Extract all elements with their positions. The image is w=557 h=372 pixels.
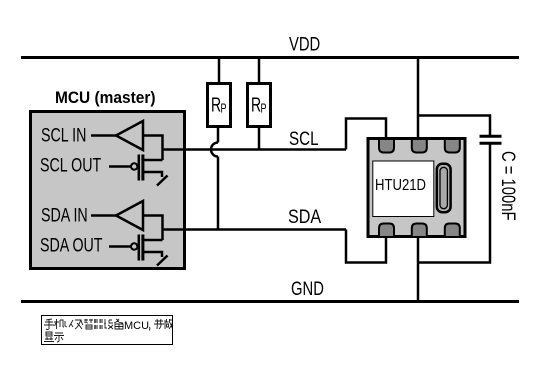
note text line 1: 手机以及智能设备MCU, 并做 (44, 319, 123, 330)
glyph 显 (44, 332, 54, 342)
glyph 机 (54, 319, 64, 329)
U2 pin 1 pad (379, 139, 394, 153)
wire buffer output to node bus SDA (143, 216, 163, 241)
transistor Q1 channel bar (141, 155, 144, 181)
wire hop to SDA node (217, 157, 220, 230)
MCU (master) block U1 (31, 112, 185, 269)
wire sensor pin 5 to GND (417, 232, 420, 302)
wire R1 down to hop (217, 127, 220, 143)
svg-text:R: R (251, 93, 261, 116)
svg-text:P: P (261, 102, 267, 116)
glyph 并 (154, 319, 164, 329)
Q1 source arrow (157, 176, 168, 186)
U2 label window (373, 161, 434, 217)
note text line 2: 显示 (44, 332, 64, 342)
glyph 及 (75, 320, 83, 329)
glyph 做 (165, 319, 173, 329)
svg-text:SDA IN: SDA IN (41, 205, 88, 226)
transistor Q1 gate bar (138, 155, 141, 181)
U2 sensor window outer (437, 164, 451, 212)
glyph 设 (104, 319, 113, 329)
wire buffer output to node bus (143, 136, 163, 161)
wire SDA IN to buffer (91, 214, 117, 217)
U2 pin 5 pad (412, 224, 427, 238)
wire SCL IN to buffer (91, 134, 117, 137)
U2 pin 4 pad (379, 224, 394, 238)
svg-text:MCU (master): MCU (master) (55, 88, 156, 107)
transistor Q2 channel bar (141, 235, 144, 261)
capacitor C1 top plate (480, 135, 502, 138)
capacitor C1 bottom plate (480, 142, 502, 145)
sensor U2 HTU21D package body (368, 139, 465, 237)
transistor Q1 gate bubble (131, 163, 137, 169)
glyph 以 (65, 320, 73, 327)
buffer amplifier SCL input (116, 121, 143, 150)
svg-text:C = 100nF: C = 100nF (498, 151, 519, 221)
Q2 source arrow (157, 256, 168, 266)
wire Q1 drain (143, 159, 163, 162)
glyph 手 (44, 319, 54, 330)
wire Q2 source (143, 252, 162, 257)
wire SCL up-over to sensor pin 1 (346, 119, 386, 150)
wire VDD rail (21, 56, 519, 59)
glyph 能 (94, 319, 103, 329)
U2 pin 3 pad (445, 139, 460, 153)
resistor R1 (208, 84, 231, 127)
wire VDD to resistor R1 (218, 58, 221, 85)
svg-text:SDA OUT: SDA OUT (40, 235, 103, 256)
wire hop over SCL (211, 143, 218, 157)
buffer amplifier SDA input (116, 201, 143, 230)
svg-text:SDA: SDA (288, 206, 321, 228)
note box (42, 316, 173, 345)
svg-text:GND: GND (291, 278, 324, 299)
svg-text:MCU: MCU (124, 320, 149, 332)
wire SCL node line (163, 148, 347, 151)
glyph 智 (84, 319, 93, 329)
U2 pin 2 pad (412, 139, 427, 153)
wire capacitor bottom to GND tee (418, 145, 490, 263)
wire Q1 source (143, 172, 162, 177)
svg-text:P: P (221, 102, 227, 116)
wire SDA OUT to gate (109, 245, 131, 248)
U2 sensor window inner (440, 167, 447, 208)
glyph 示 (54, 333, 64, 342)
wire VDD tee to capacitor top (418, 116, 490, 136)
svg-text:SCL OUT: SCL OUT (40, 155, 101, 176)
U2 pin 6 pad (445, 224, 460, 238)
transistor Q2 gate bar (138, 235, 141, 261)
wire SDA down-over to sensor pin 4 (346, 230, 386, 263)
wire SCL OUT to gate (109, 165, 131, 168)
wire VDD to resistor R2 (258, 58, 261, 85)
wire Q2 drain (143, 239, 163, 242)
wire SDA node line (163, 228, 347, 231)
wire GND rail (21, 300, 519, 303)
svg-text:HTU21D: HTU21D (375, 177, 426, 194)
wire R2 to SCL node (258, 127, 261, 150)
svg-text:VDD: VDD (289, 34, 320, 55)
svg-text:SCL IN: SCL IN (41, 125, 86, 146)
glyph 备 (114, 319, 123, 329)
resistor R2 (248, 84, 271, 127)
transistor Q2 gate bubble (131, 243, 137, 249)
wire VDD drop to sensor pin 2 (417, 58, 420, 143)
svg-text:R: R (211, 93, 221, 116)
note text comma (148, 327, 151, 331)
svg-text:SCL: SCL (289, 127, 319, 149)
